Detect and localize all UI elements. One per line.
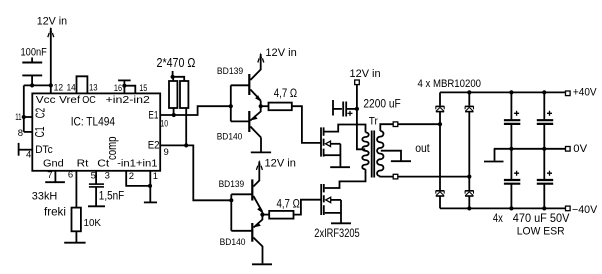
svg-text:15: 15 bbox=[139, 83, 147, 94]
svg-text:C1: C1 bbox=[32, 126, 47, 137]
svg-text:4 x MBR10200: 4 x MBR10200 bbox=[418, 78, 482, 90]
svg-text:5: 5 bbox=[91, 171, 96, 182]
svg-text:9: 9 bbox=[164, 147, 169, 158]
svg-text:-in1+in1: -in1+in1 bbox=[117, 159, 158, 170]
svg-text:OC: OC bbox=[82, 94, 96, 106]
svg-text:out: out bbox=[415, 143, 430, 155]
svg-text:Tr: Tr bbox=[369, 115, 378, 127]
svg-text:7: 7 bbox=[47, 170, 52, 181]
svg-text:LOW ESR: LOW ESR bbox=[517, 225, 565, 237]
svg-text:+40V: +40V bbox=[573, 87, 597, 99]
svg-text:C2: C2 bbox=[32, 108, 47, 118]
svg-text:BD140: BD140 bbox=[217, 132, 243, 143]
svg-text:4,7 Ω: 4,7 Ω bbox=[274, 88, 298, 100]
svg-text:11: 11 bbox=[15, 112, 21, 123]
svg-text:2200 uF: 2200 uF bbox=[363, 97, 400, 111]
svg-text:BD139: BD139 bbox=[219, 179, 245, 190]
svg-text:IC: TL494: IC: TL494 bbox=[71, 117, 116, 129]
svg-text:12: 12 bbox=[54, 83, 64, 94]
svg-text:3: 3 bbox=[105, 171, 110, 182]
svg-text:BD140: BD140 bbox=[220, 237, 246, 248]
svg-text:BD139: BD139 bbox=[217, 66, 243, 77]
svg-text:12V in: 12V in bbox=[37, 15, 67, 27]
svg-text:12V in: 12V in bbox=[265, 47, 296, 59]
svg-text:1,5nF: 1,5nF bbox=[99, 191, 124, 203]
svg-text:6: 6 bbox=[68, 170, 73, 181]
svg-text:4x: 4x bbox=[493, 213, 503, 225]
svg-text:2: 2 bbox=[129, 171, 134, 182]
svg-text:0V: 0V bbox=[573, 143, 587, 155]
svg-text:E1: E1 bbox=[148, 110, 158, 122]
svg-text:33kH: 33kH bbox=[32, 191, 58, 203]
svg-text:2xIRF3205: 2xIRF3205 bbox=[314, 228, 359, 240]
svg-text:470 uF 50V: 470 uF 50V bbox=[513, 213, 570, 225]
svg-text:10K: 10K bbox=[84, 217, 102, 229]
svg-text:Ct: Ct bbox=[97, 159, 109, 170]
svg-text:12V in: 12V in bbox=[350, 68, 381, 80]
svg-text:4,7 Ω: 4,7 Ω bbox=[277, 199, 301, 211]
svg-text:10: 10 bbox=[160, 118, 168, 129]
svg-text:−40V: −40V bbox=[572, 204, 598, 216]
svg-text:4: 4 bbox=[26, 150, 31, 161]
svg-text:12V in: 12V in bbox=[265, 158, 296, 170]
svg-text:Vcc: Vcc bbox=[36, 94, 56, 106]
svg-text:+in2-in2: +in2-in2 bbox=[106, 94, 151, 106]
svg-text:8: 8 bbox=[18, 128, 23, 139]
svg-text:Gnd: Gnd bbox=[43, 159, 64, 170]
svg-text:1: 1 bbox=[153, 171, 158, 182]
svg-text:100nF: 100nF bbox=[21, 46, 48, 58]
svg-text:E2: E2 bbox=[148, 139, 160, 151]
svg-text:Vref: Vref bbox=[59, 94, 80, 106]
svg-text:freki: freki bbox=[44, 204, 66, 218]
svg-text:16: 16 bbox=[114, 83, 122, 94]
svg-text:2*470 Ω: 2*470 Ω bbox=[157, 56, 196, 70]
svg-text:13: 13 bbox=[89, 83, 98, 94]
svg-text:14: 14 bbox=[67, 83, 76, 94]
svg-text:Rt: Rt bbox=[77, 159, 89, 170]
svg-text:comp: comp bbox=[105, 136, 119, 160]
svg-text:DTc: DTc bbox=[35, 144, 53, 156]
